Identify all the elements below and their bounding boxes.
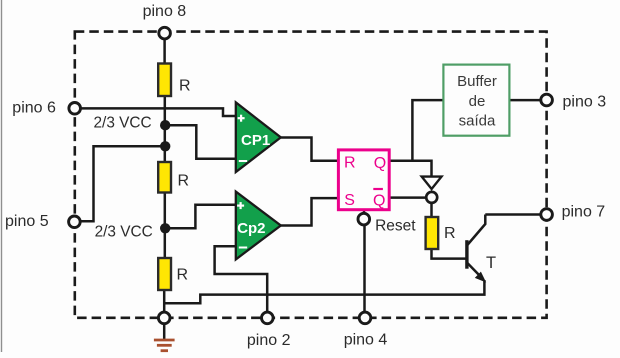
inverter bubble — [426, 192, 437, 203]
terminal ground — [158, 312, 170, 324]
flip-flop RS — [338, 150, 389, 210]
svg-text:Q: Q — [373, 193, 385, 210]
svg-text:Cp2: Cp2 — [237, 220, 265, 237]
wire R3 to ground terminal — [163, 291, 166, 315]
svg-text:R: R — [444, 225, 456, 242]
transistor T — [465, 240, 468, 269]
svg-text:2/3 VCC: 2/3 VCC — [94, 114, 152, 131]
wire node 2/3VCC to CP1 - input — [165, 125, 236, 159]
svg-text:R: R — [177, 267, 189, 284]
wire Reset to pino 4 — [363, 226, 366, 313]
wire divider node to CP2 + input — [165, 205, 236, 229]
svg-text:pino 6: pino 6 — [12, 99, 56, 116]
svg-text:R: R — [344, 155, 356, 172]
wire CP2 output to flip-flop S input — [280, 198, 339, 225]
svg-text:pino 5: pino 5 — [5, 213, 49, 230]
wire CP1 output to flip-flop R input — [280, 138, 339, 161]
svg-text:CP1: CP1 — [241, 132, 270, 149]
wire flip-flop to Reset terminal — [363, 210, 366, 213]
wire pino8 to R1 — [163, 37, 166, 64]
wire buffer output to pino 3 — [509, 99, 541, 102]
svg-text:T: T — [486, 254, 496, 272]
terminal pino 3 — [541, 94, 553, 106]
resistor R2 — [158, 162, 171, 193]
node 2/3 VCC junction dot 2 — [160, 141, 170, 151]
svg-text:S: S — [344, 192, 355, 209]
wire R2 to R3 divider chain — [164, 193, 167, 257]
wire pino 6 to CP1 + input — [81, 108, 236, 116]
node divider junction dot 3 — [160, 223, 170, 233]
wire pino 5 to node 2/3VCC — [81, 146, 165, 221]
op-amp CP1 — [236, 102, 281, 172]
svg-text:pino 3: pino 3 — [563, 94, 607, 111]
svg-text:R: R — [178, 173, 190, 190]
wire bubble to R4 — [430, 204, 433, 217]
terminal pino 4 — [359, 312, 371, 324]
resistor R4 — [426, 217, 439, 249]
op-amp Cp2 — [236, 192, 281, 260]
svg-text:de: de — [469, 93, 486, 110]
terminal pino 8 — [159, 27, 171, 39]
svg-text:pino 7: pino 7 — [562, 204, 606, 221]
inverter triangle — [422, 177, 442, 189]
svg-text:pino 4: pino 4 — [344, 332, 388, 349]
terminal pino 7 — [541, 209, 553, 221]
svg-text:Reset: Reset — [375, 218, 416, 235]
svg-text:Buffer: Buffer — [457, 73, 497, 90]
wire branch Q to buffer input — [412, 100, 443, 161]
svg-text:R: R — [179, 78, 191, 95]
resistor R3 — [158, 258, 171, 290]
node 2/3 VCC junction dot 1 — [160, 120, 170, 130]
resistor R1 — [158, 64, 171, 97]
wire R4 to transistor base — [432, 250, 467, 259]
svg-text:2/3 VCC: 2/3 VCC — [95, 223, 153, 240]
ground symbol — [163, 324, 166, 339]
svg-text:pino 8: pino 8 — [143, 3, 187, 20]
wire flip-flop Q output to inverter — [389, 161, 431, 177]
svg-text:pino 2: pino 2 — [247, 332, 291, 349]
wire pino 2 to CP2 - input — [215, 246, 268, 313]
wire R1 to R2 divider chain — [164, 97, 167, 162]
terminal pino 6 — [69, 103, 81, 115]
IC boundary dashed box — [75, 32, 547, 318]
terminal pino 2 — [262, 312, 274, 324]
wire flip-flop Qbar output to inverter bubble — [389, 196, 426, 199]
svg-text:Q: Q — [374, 155, 386, 172]
svg-text:saída: saída — [459, 112, 496, 129]
terminal Reset — [358, 213, 370, 225]
terminal pino 5 — [69, 216, 81, 228]
wire ground run to emitter — [164, 280, 484, 303]
buffer de saida box U2 — [443, 65, 509, 136]
wire collector to pino 7 — [485, 213, 541, 216]
